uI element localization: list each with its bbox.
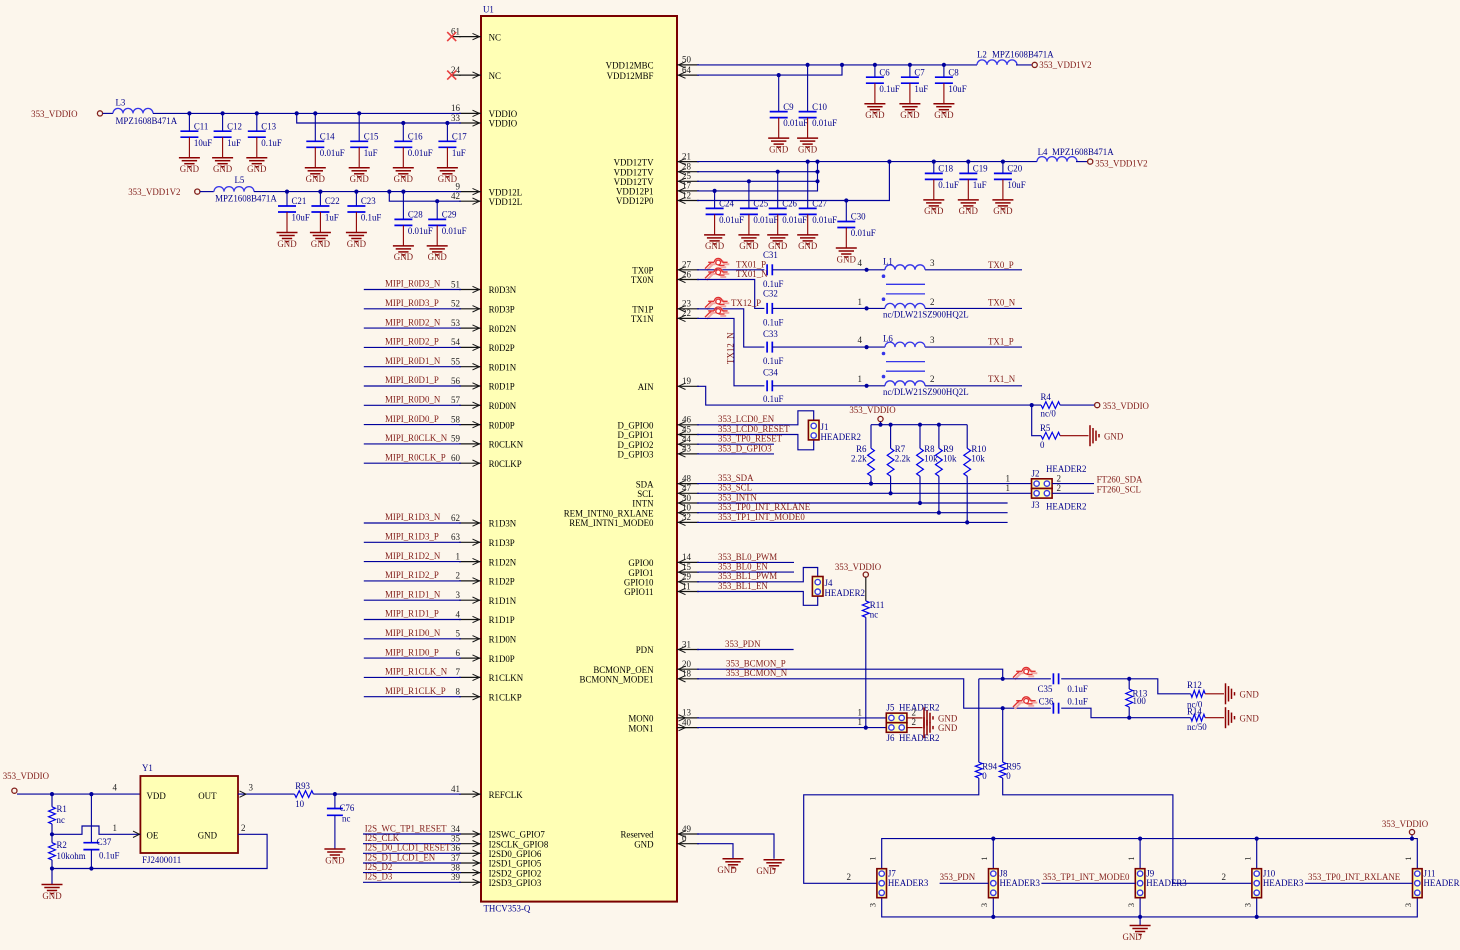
wire R1 top (51, 794, 53, 807)
svg-text:GND: GND (180, 164, 200, 174)
svg-text:58: 58 (451, 414, 461, 424)
ground (side) (1226, 683, 1260, 704)
wire R13 stubs2 (1128, 707, 1130, 718)
net label 353_INTN (718, 492, 758, 502)
pin 51 R0D3N (451, 279, 517, 295)
svg-text:1uF: 1uF (325, 213, 339, 223)
svg-text:0: 0 (682, 834, 687, 844)
net label TX01_N (736, 269, 768, 279)
capacitor C16 (393, 123, 433, 184)
wire TX12_P (697, 309, 764, 347)
svg-text:C26: C26 (782, 199, 797, 209)
svg-text:R9: R9 (943, 444, 954, 454)
pin 59 R0CLKN (451, 434, 524, 450)
wire R1-R2 node to OE (50, 824, 140, 837)
pin number J10-2 (1222, 872, 1227, 882)
pin 36 I2SD0_GPIO6 (451, 843, 542, 859)
svg-text:R0CLKN: R0CLKN (489, 440, 524, 450)
svg-text:L1: L1 (883, 256, 893, 266)
pin arrow Y1 OUT (240, 791, 247, 797)
wire I2S_D2 (363, 872, 461, 874)
pin number J3-2 (1057, 483, 1062, 493)
power port 353_VDDIO (1382, 819, 1429, 835)
svg-text:VDD: VDD (147, 791, 167, 801)
svg-text:nc: nc (342, 814, 350, 824)
wire Y1 VDD (17, 792, 140, 796)
svg-text:353_TP0_RESET: 353_TP0_RESET (718, 434, 783, 444)
net label I2S_D2 (365, 862, 393, 872)
svg-text:J7: J7 (888, 869, 896, 879)
pin 56 R0D1P (451, 376, 515, 392)
svg-text:J10: J10 (1263, 869, 1276, 879)
svg-text:MIPI_R0D2_P: MIPI_R0D2_P (385, 337, 439, 347)
wire VDD12P1 pin17 (697, 162, 818, 193)
wire VDD12MBC rail (697, 63, 977, 67)
svg-text:36: 36 (451, 843, 461, 853)
wire 353_BCMON_P (697, 669, 1003, 679)
svg-text:2: 2 (1057, 483, 1062, 493)
svg-text:R11: R11 (870, 600, 884, 610)
svg-text:D_GPIO3: D_GPIO3 (618, 450, 655, 460)
svg-text:353_TP1_INT_MODE0: 353_TP1_INT_MODE0 (718, 512, 805, 522)
wire 353_LCD0_EN (697, 411, 814, 425)
svg-text:35: 35 (451, 834, 461, 844)
net label 353_BL0_PWM (718, 552, 777, 562)
svg-text:VDD12TV: VDD12TV (614, 157, 655, 167)
net label MIPI_R0D1_P (385, 375, 439, 385)
svg-text:353_VDDIO: 353_VDDIO (835, 562, 882, 572)
svg-text:FT260_SDA: FT260_SDA (1097, 475, 1143, 485)
svg-text:GND: GND (1240, 689, 1260, 699)
svg-text:353_LCD0_RESET: 353_LCD0_RESET (718, 424, 790, 434)
wire MIPI_R0D3_N (364, 289, 461, 291)
svg-text:1: 1 (456, 551, 461, 561)
wire 353_LCD0_RESET (697, 435, 814, 450)
power port 353_VDD1V2 (1032, 60, 1091, 70)
capacitor C21 (277, 192, 310, 249)
svg-text:C11: C11 (194, 121, 208, 131)
wire R11 top (865, 577, 867, 601)
svg-text:GPIO10: GPIO10 (624, 578, 654, 588)
svg-text:MIPI_R1D3_P: MIPI_R1D3_P (385, 532, 439, 542)
svg-text:GND: GND (934, 110, 954, 120)
svg-text:1: 1 (858, 374, 863, 384)
ground (side) (924, 707, 958, 728)
connector J9 (1126, 856, 1187, 907)
svg-text:353_BL0_PWM: 353_BL0_PWM (718, 552, 777, 562)
wire R7 body wire (890, 425, 892, 449)
svg-text:GND: GND (311, 239, 331, 249)
net label 353_BL1_PWM (718, 571, 777, 581)
svg-text:2: 2 (912, 707, 917, 717)
net label MIPI_R0D1_N (385, 356, 441, 366)
svg-text:nc/DLW21SZ900HQ2L: nc/DLW21SZ900HQ2L (883, 387, 969, 397)
svg-text:C12: C12 (227, 121, 242, 131)
power port 353_VDDIO (849, 405, 896, 421)
svg-text:R5: R5 (1040, 423, 1051, 433)
svg-text:R1D0P: R1D0P (489, 654, 515, 664)
svg-text:10kohm: 10kohm (57, 851, 86, 861)
wire J9 pin3 (1139, 898, 1141, 917)
svg-text:52: 52 (451, 299, 460, 309)
wire 353_BL0_EN (697, 571, 794, 573)
svg-text:GND: GND (900, 110, 920, 120)
pin 35 I2SCLK_GPIO8 (451, 834, 549, 850)
svg-text:353_VDDIO: 353_VDDIO (1382, 819, 1429, 829)
svg-text:C27: C27 (812, 199, 827, 209)
svg-text:R1D2N: R1D2N (489, 557, 517, 567)
svg-text:0.1uF: 0.1uF (763, 279, 784, 289)
wire L4 out (1076, 161, 1088, 163)
svg-text:L4: L4 (1038, 147, 1048, 157)
svg-text:31: 31 (682, 639, 691, 649)
svg-text:J1: J1 (821, 422, 829, 432)
capacitor C37 (83, 794, 119, 868)
svg-text:0.1uF: 0.1uF (763, 394, 784, 404)
wire MIPI_R1D2_N (364, 561, 461, 563)
svg-text:0.01uF: 0.01uF (812, 118, 837, 128)
svg-text:353_BCMON_P: 353_BCMON_P (726, 659, 786, 669)
svg-text:0.1uF: 0.1uF (261, 138, 282, 148)
svg-text:TX1_P: TX1_P (988, 337, 1014, 347)
svg-text:1: 1 (858, 717, 863, 727)
svg-text:0: 0 (1006, 771, 1011, 781)
svg-text:MIPI_R0D3_P: MIPI_R0D3_P (385, 298, 439, 308)
svg-text:28: 28 (682, 162, 692, 172)
wire TX01_P (697, 269, 764, 271)
svg-text:C13: C13 (261, 121, 276, 131)
pin 46 D_GPIO0 (618, 415, 700, 431)
svg-text:BCMONN_MODE1: BCMONN_MODE1 (580, 675, 654, 685)
wire R94 to J7 (804, 778, 979, 883)
svg-text:14: 14 (682, 552, 692, 562)
wire Reserved pin49 (697, 834, 774, 859)
svg-text:I2S_D2: I2S_D2 (365, 862, 393, 872)
wire REFCLK (313, 792, 461, 796)
net label 353_BL0_EN (718, 562, 768, 572)
resistor R11 (862, 600, 884, 620)
svg-text:C29: C29 (442, 210, 457, 220)
pin number L1-4 (858, 258, 863, 268)
svg-text:0.1uF: 0.1uF (763, 317, 784, 327)
net label I2S_D0_LCD1_RESET (365, 843, 451, 853)
wire R11 to MON1 (865, 617, 867, 727)
wire L2 out (1016, 64, 1032, 66)
svg-text:0.01uF: 0.01uF (408, 148, 433, 158)
svg-text:62: 62 (451, 513, 460, 523)
svg-text:C30: C30 (851, 212, 866, 222)
svg-text:43: 43 (682, 444, 692, 454)
svg-text:353_BCMON_N: 353_BCMON_N (726, 668, 788, 678)
svg-text:HEADER3: HEADER3 (888, 878, 929, 888)
pin number J6-2 (912, 717, 917, 727)
pin 13 MON0 (628, 708, 699, 724)
svg-text:C16: C16 (408, 132, 423, 142)
net label TX1_P (988, 337, 1014, 347)
wire 353_TP0_INT_RXLANE to J11 (1305, 882, 1413, 884)
net label MIPI_R1D3_N (385, 512, 441, 522)
svg-text:0: 0 (982, 771, 987, 781)
svg-text:C28: C28 (408, 210, 423, 220)
svg-text:10uF: 10uF (1007, 180, 1025, 190)
capacitor C35 (1038, 673, 1088, 694)
svg-text:J8: J8 (1000, 869, 1008, 879)
svg-text:1uF: 1uF (914, 84, 928, 94)
svg-text:50: 50 (682, 55, 692, 65)
wire 353_TP1_INT_MODE0 (697, 520, 1008, 524)
capacitor C28 (393, 192, 433, 263)
wire MIPI_R0D3_P (364, 308, 461, 310)
svg-text:MIPI_R0D0_P: MIPI_R0D0_P (385, 414, 439, 424)
net label I2S_WC_TP1_RESET (365, 823, 447, 833)
svg-text:3: 3 (1242, 903, 1252, 907)
svg-text:C21: C21 (292, 196, 307, 206)
resistor R2 (49, 840, 86, 861)
net label FT260_SDA (1097, 475, 1143, 485)
svg-text:17: 17 (682, 181, 692, 191)
svg-text:1: 1 (858, 707, 863, 717)
svg-text:10k: 10k (943, 454, 957, 464)
svg-text:nc: nc (57, 815, 65, 825)
pin 57 R0D0N (451, 395, 517, 411)
svg-text:29: 29 (682, 572, 692, 582)
svg-text:34: 34 (451, 824, 461, 834)
svg-text:2: 2 (847, 872, 852, 882)
svg-text:0.01uF: 0.01uF (719, 215, 744, 225)
svg-text:2.2k: 2.2k (895, 454, 911, 464)
wire TX1_N out (925, 385, 1022, 387)
svg-text:SDA: SDA (636, 479, 654, 489)
svg-text:C14: C14 (320, 132, 335, 142)
wire R10 to MODE0 (966, 476, 968, 522)
pin number L6-2 (930, 374, 935, 384)
svg-text:GND: GND (325, 855, 345, 865)
svg-text:C17: C17 (452, 132, 467, 142)
svg-text:I2SWC_GPIO7: I2SWC_GPIO7 (489, 830, 546, 840)
svg-text:VDD12MBF: VDD12MBF (607, 71, 654, 81)
pin 44 D_GPIO2 (618, 434, 700, 450)
pin 10 REM_INTN0_RXLANE (564, 503, 699, 519)
svg-text:NC: NC (489, 32, 501, 42)
wire VDD12P0 pin12 (697, 162, 889, 203)
capacitor C25 (738, 181, 778, 251)
svg-text:R1D3N: R1D3N (489, 519, 517, 529)
svg-text:R1CLKN: R1CLKN (489, 673, 524, 683)
svg-text:GND: GND (1240, 713, 1260, 723)
svg-text:R8: R8 (924, 444, 935, 454)
svg-text:GND: GND (938, 723, 958, 733)
net label MIPI_R0D2_N (385, 317, 441, 327)
svg-text:2: 2 (912, 717, 917, 727)
svg-text:GND: GND (277, 239, 297, 249)
svg-text:353_SCL: 353_SCL (718, 483, 752, 493)
wire MIPI_R1D2_P (364, 580, 461, 582)
svg-text:HEADER3: HEADER3 (1263, 878, 1304, 888)
wire R8 body wire (919, 425, 921, 449)
wire R13 stubs (1128, 679, 1130, 689)
pin 53 R0D2N (451, 318, 517, 334)
svg-text:1: 1 (1006, 473, 1011, 483)
svg-text:R2: R2 (57, 840, 67, 850)
svg-text:C24: C24 (719, 199, 734, 209)
svg-text:REM_INTN0_RXLANE: REM_INTN0_RXLANE (564, 508, 654, 518)
svg-text:63: 63 (451, 532, 461, 542)
svg-text:D_GPIO1: D_GPIO1 (618, 430, 654, 440)
wire R95 to J10 (1003, 778, 1252, 883)
svg-text:51: 51 (451, 279, 460, 289)
net label 353_PDN (940, 872, 976, 882)
svg-text:FJ2400011: FJ2400011 (142, 855, 181, 865)
svg-text:4: 4 (858, 335, 863, 345)
svg-text:C33: C33 (763, 329, 778, 339)
net label TX1_N (988, 374, 1016, 384)
svg-text:3: 3 (1126, 903, 1136, 907)
svg-text:MIPI_R1D1_P: MIPI_R1D1_P (385, 609, 439, 619)
wire R9 to RXLANE (938, 476, 940, 513)
diff-pair directive (705, 268, 729, 280)
wire R6 to SDA (870, 476, 872, 483)
pin 16 VDDIO (451, 103, 518, 119)
svg-text:353_TP0_INT_RXLANE: 353_TP0_INT_RXLANE (1308, 872, 1400, 882)
svg-text:20: 20 (682, 659, 692, 669)
wire J7-J11 bottom rail (882, 898, 1418, 919)
capacitor C36 (1039, 697, 1088, 714)
svg-text:BCMONP_OEN: BCMONP_OEN (593, 665, 654, 675)
svg-text:45: 45 (682, 424, 692, 434)
net label MIPI_R1D2_P (385, 570, 439, 580)
svg-text:R1D1P: R1D1P (489, 615, 515, 625)
net label 353_TP0_INT_RXLANE (718, 502, 810, 512)
pin 32 REM_INTN1_MODE0 (569, 512, 699, 528)
svg-text:R0D0P: R0D0P (489, 420, 515, 430)
svg-text:D_GPIO0: D_GPIO0 (618, 421, 655, 431)
svg-text:353_VDD1V2: 353_VDD1V2 (128, 187, 180, 197)
svg-text:4: 4 (858, 258, 863, 268)
svg-text:nc/0: nc/0 (1041, 408, 1057, 418)
power port 353_VDD1V2 (128, 187, 200, 197)
connector J4 (812, 577, 865, 598)
wire FT260_SCL (1052, 492, 1094, 494)
svg-text:J3: J3 (1032, 500, 1040, 510)
svg-text:GND: GND (42, 891, 62, 901)
power port 353_VDDIO (31, 109, 102, 119)
net label I2S_CLK (365, 833, 400, 843)
wire 353_VDDIO rail to pin16 (153, 111, 461, 115)
wire pullup rail (880, 422, 882, 425)
pin 64 VDD12MBF (607, 65, 699, 81)
svg-text:VDD12P0: VDD12P0 (616, 196, 654, 206)
svg-text:R0D0N: R0D0N (489, 401, 517, 411)
svg-text:353_BL1_EN: 353_BL1_EN (718, 581, 768, 591)
pin 11 GPIO11 (624, 581, 699, 597)
resistor R10 (964, 444, 987, 476)
svg-text:R1CLKP: R1CLKP (489, 692, 522, 702)
net label MIPI_R0CLK_N (385, 433, 448, 443)
wire 353_TP1_INT_MODE0 to J9 (1041, 882, 1135, 884)
svg-text:R4: R4 (1041, 392, 1052, 402)
svg-text:3: 3 (867, 903, 877, 907)
svg-text:12: 12 (682, 190, 691, 200)
pin 3 R1D1N (456, 590, 517, 606)
svg-text:4: 4 (456, 609, 461, 619)
pin 62 R1D3N (451, 513, 517, 529)
svg-text:2: 2 (241, 823, 246, 833)
designator J5 (887, 703, 940, 713)
svg-text:J2: J2 (1032, 468, 1040, 478)
wire NC pin61 (452, 36, 461, 38)
diff-pair directive (1013, 667, 1037, 679)
svg-text:VDD12L: VDD12L (489, 197, 523, 207)
svg-text:I2S_CLK: I2S_CLK (365, 833, 400, 843)
svg-text:OUT: OUT (198, 791, 217, 801)
wire MIPI_R0CLK_P (364, 462, 461, 464)
net label TX0_N (988, 297, 1016, 307)
capacitor C29 (427, 201, 467, 262)
wire VDD12TV pin25 (697, 179, 820, 183)
svg-text:I2S_WC_TP1_RESET: I2S_WC_TP1_RESET (365, 823, 447, 833)
svg-text:2.2k: 2.2k (851, 454, 867, 464)
wire TX1_P choke in (772, 345, 885, 349)
svg-text:C32: C32 (763, 289, 778, 299)
svg-text:38: 38 (451, 862, 461, 872)
svg-text:MIPI_R1D1_N: MIPI_R1D1_N (385, 589, 441, 599)
svg-text:353_VDDIO: 353_VDDIO (1103, 401, 1150, 411)
svg-text:GND: GND (213, 164, 233, 174)
capacitor C9 (768, 75, 808, 154)
svg-text:VDD12MBC: VDD12MBC (606, 61, 654, 71)
svg-text:25: 25 (682, 171, 692, 181)
svg-text:GPIO11: GPIO11 (624, 587, 653, 597)
svg-text:C37: C37 (97, 837, 112, 847)
svg-text:353_D_GPIO3: 353_D_GPIO3 (718, 443, 772, 453)
svg-text:3: 3 (930, 335, 935, 345)
svg-text:0.01uF: 0.01uF (753, 215, 778, 225)
svg-text:0.01uF: 0.01uF (851, 228, 876, 238)
net label 353_TP0_RESET (718, 434, 783, 444)
capacitor C20 (992, 162, 1025, 217)
svg-text:C7: C7 (914, 67, 925, 77)
svg-text:MIPI_R1D0_P: MIPI_R1D0_P (385, 647, 439, 657)
capacitor C34 (763, 367, 784, 404)
svg-text:353_VDDIO: 353_VDDIO (31, 109, 78, 119)
pin 19 AIN (638, 376, 699, 392)
svg-text:C76: C76 (340, 803, 355, 813)
wire I2S_WC_TP1_RESET (363, 833, 461, 835)
wire MIPI_R0D1_N (364, 366, 461, 368)
svg-text:0: 0 (1040, 440, 1045, 450)
wire MIPI_R0D2_P (364, 346, 461, 348)
svg-text:L6: L6 (883, 334, 893, 344)
svg-text:0.1uF: 0.1uF (763, 356, 784, 366)
net label TX12_P (731, 298, 761, 308)
capacitor C24 (704, 191, 744, 251)
IC U1 THCV353-Q body (481, 5, 677, 914)
svg-text:MIPI_R0CLK_P: MIPI_R0CLK_P (385, 452, 446, 462)
svg-text:C34: C34 (763, 367, 778, 377)
wire 353_VDDIO rail pin16 (103, 112, 113, 114)
wire MIPI_R1D0_N (364, 638, 461, 640)
net label MIPI_R1CLK_N (385, 667, 448, 677)
svg-text:2: 2 (1057, 473, 1062, 483)
svg-text:32: 32 (682, 512, 691, 522)
svg-text:HEADER2: HEADER2 (1046, 502, 1086, 512)
wire R2 bottom (51, 860, 53, 869)
svg-text:C36: C36 (1039, 697, 1054, 707)
svg-text:33: 33 (451, 113, 461, 123)
svg-text:C35: C35 (1038, 684, 1053, 694)
svg-text:0.1uF: 0.1uF (361, 213, 382, 223)
inductor L2 (977, 49, 1054, 65)
